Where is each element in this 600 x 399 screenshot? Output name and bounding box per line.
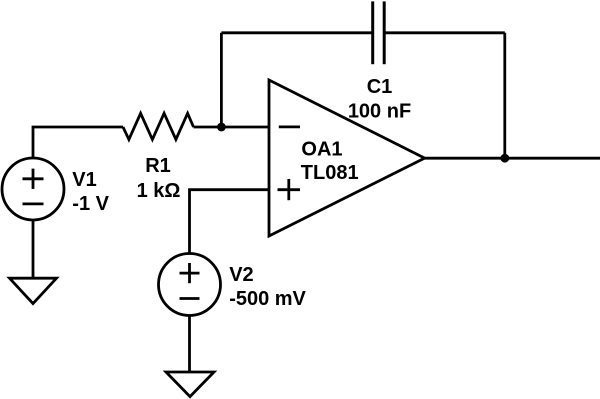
- svg-text:-1 V: -1 V: [72, 193, 109, 215]
- svg-text:TL081: TL081: [301, 162, 359, 184]
- svg-text:1 kΩ: 1 kΩ: [137, 180, 181, 202]
- svg-text:100 nF: 100 nF: [348, 101, 411, 123]
- svg-text:R1: R1: [145, 155, 171, 177]
- svg-text:C1: C1: [367, 76, 393, 98]
- svg-text:V1: V1: [72, 169, 96, 191]
- svg-text:V2: V2: [229, 264, 253, 286]
- svg-text:-500 mV: -500 mV: [229, 288, 306, 310]
- svg-text:OA1: OA1: [301, 138, 342, 160]
